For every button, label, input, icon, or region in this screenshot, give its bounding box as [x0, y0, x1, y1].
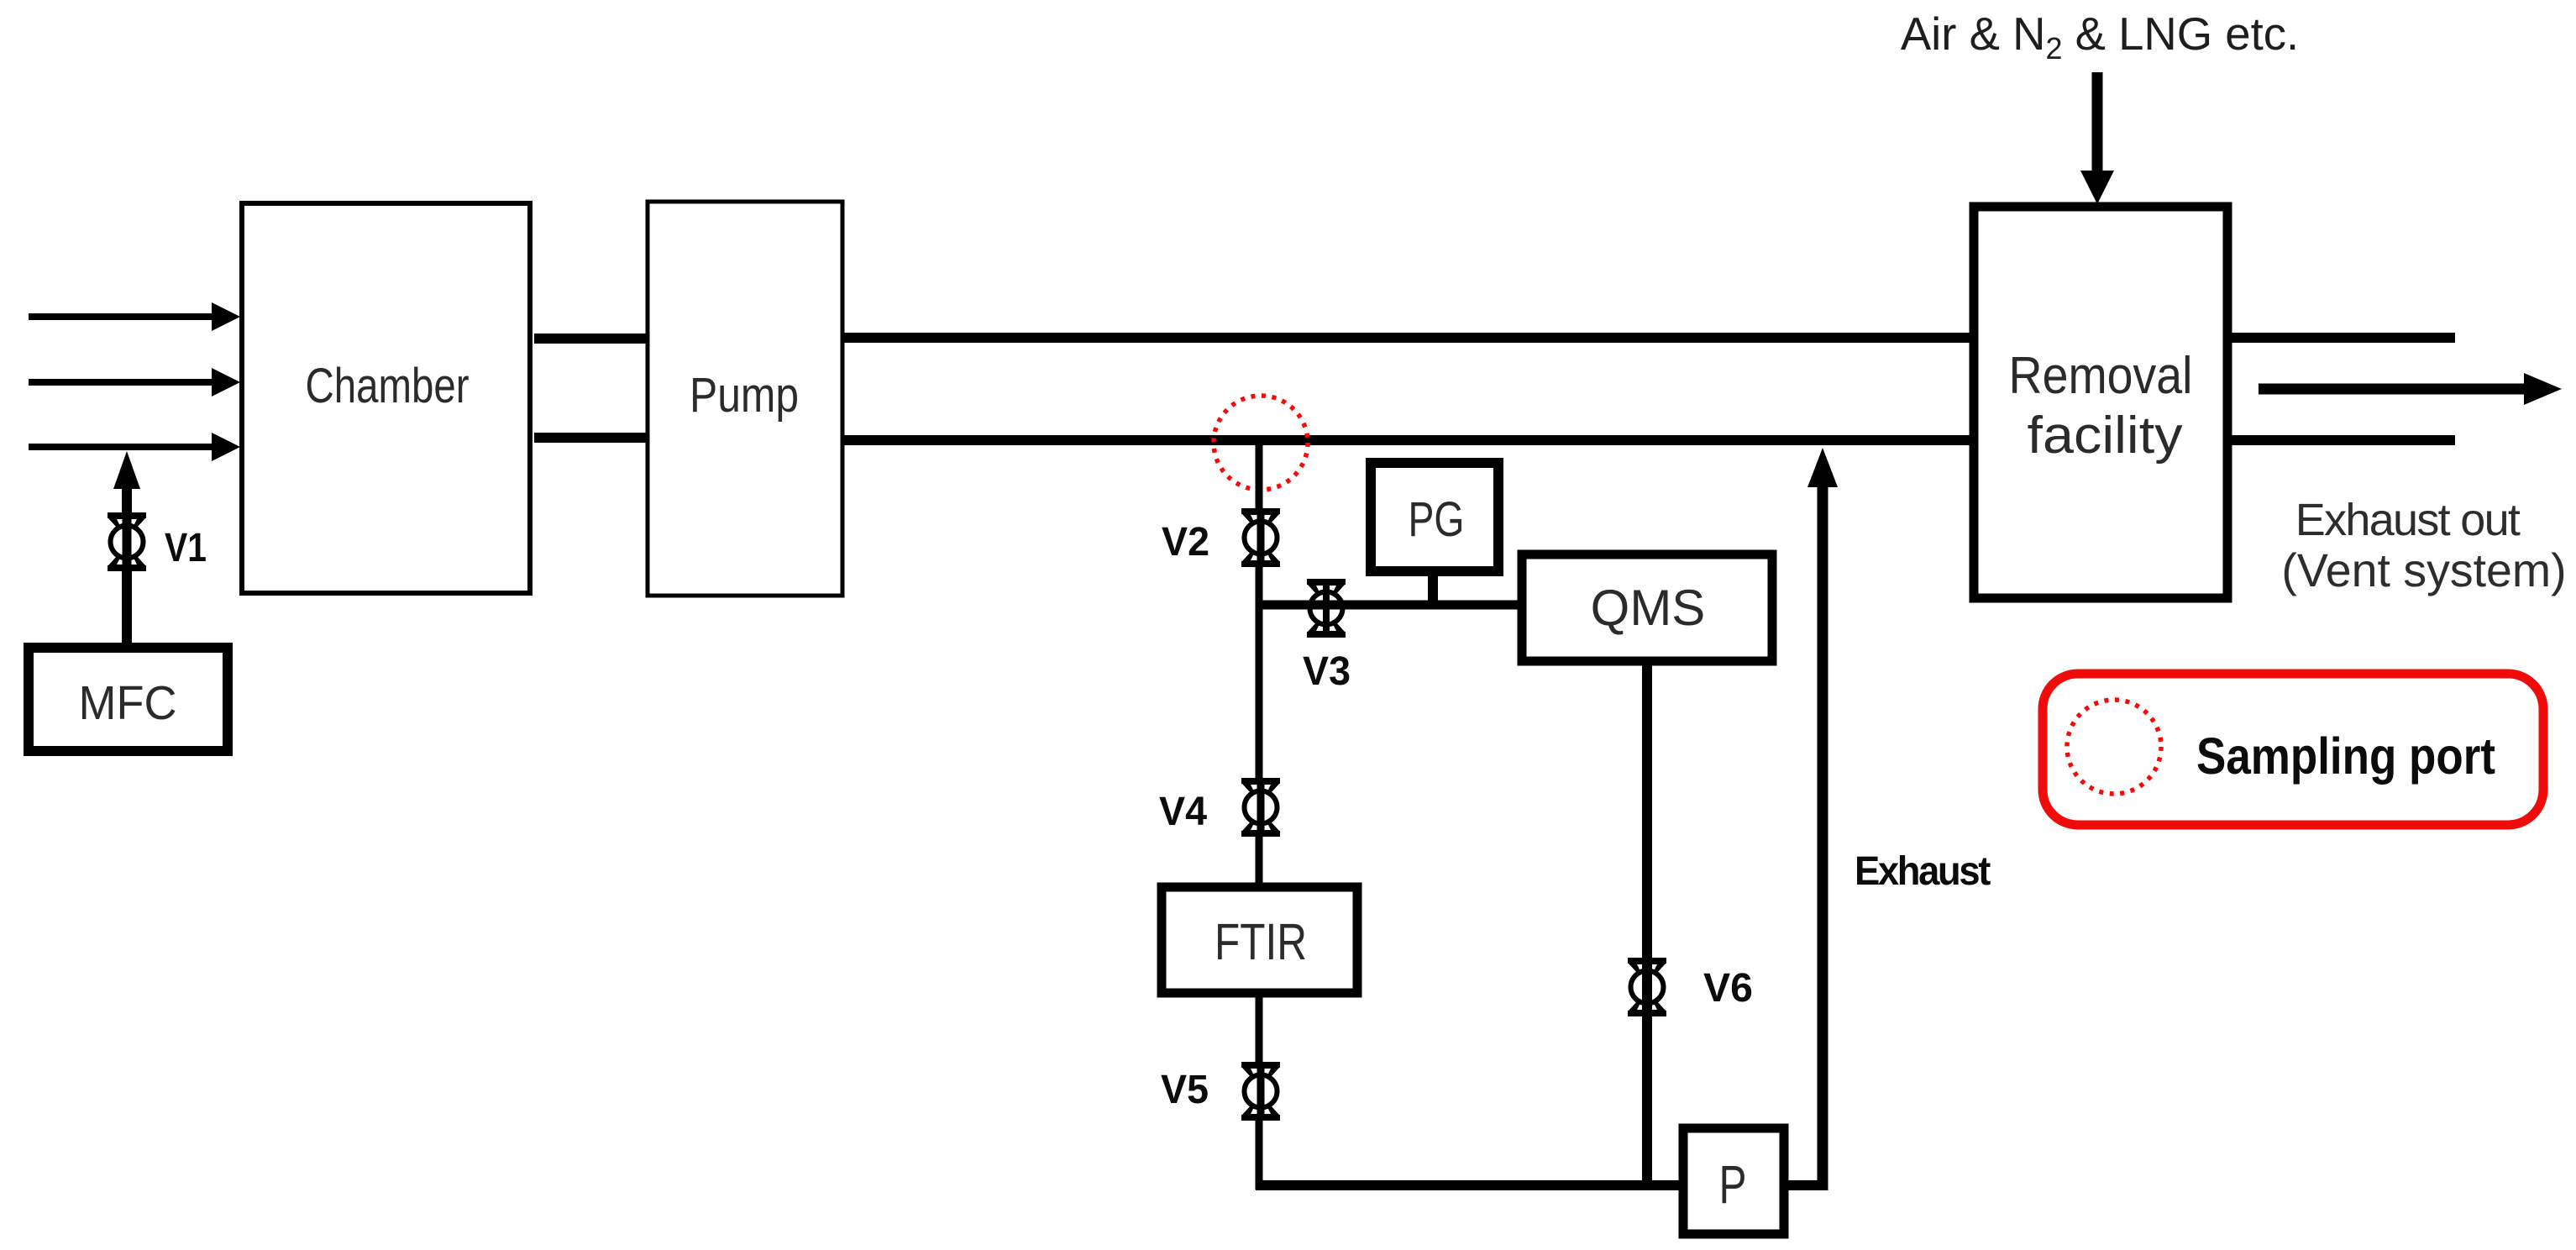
valve V3 — [1307, 579, 1346, 638]
pump P box — [1683, 1128, 1784, 1234]
wire: sampling line from bottom pipe down to FTIR — [1256, 440, 1263, 884]
svg-text:Pump: Pump — [690, 368, 799, 423]
legend sampling port dotted circle — [2067, 700, 2161, 794]
wire: removal facility bottom outlet — [2227, 435, 2455, 445]
svg-text:V6: V6 — [1703, 966, 1753, 1011]
wire: removal facility top outlet — [2227, 333, 2455, 343]
wire: branch line to PG and QMS — [1259, 601, 1522, 610]
svg-text:V3: V3 — [1303, 649, 1351, 694]
svg-text:V1: V1 — [165, 526, 207, 570]
svg-text:Removal: Removal — [2009, 347, 2193, 405]
svg-text:FTIR: FTIR — [1215, 913, 1307, 970]
svg-text:Exhaust: Exhaust — [1855, 849, 1991, 894]
wire: QMS stem down to bottom line — [1642, 663, 1652, 1185]
svg-text:Chamber: Chamber — [306, 359, 470, 413]
svg-text:PG: PG — [1409, 492, 1465, 547]
svg-text:V2: V2 — [1162, 520, 1209, 565]
wire: air feed arrow into removal facility — [2080, 72, 2114, 204]
svg-text:Sampling port: Sampling port — [2196, 727, 2495, 785]
svg-text:V5: V5 — [1161, 1068, 1209, 1112]
wire: top pipe pump to removal facility — [842, 333, 1974, 343]
sampling port red dotted circle on bottom pipe — [1214, 396, 1308, 490]
wire: bottom pipe pump to removal facility — [842, 435, 1974, 445]
valve V5 — [1241, 1062, 1280, 1121]
wire: PG stem — [1428, 575, 1438, 608]
svg-text:facility: facility — [2028, 407, 2183, 465]
valve V1 — [108, 512, 146, 571]
QMS box — [1522, 554, 1772, 661]
Pump box — [648, 202, 842, 596]
wire: chamber inlet arrow 2 — [29, 368, 240, 397]
wire: chamber to pump bottom connector — [534, 433, 647, 443]
PG box — [1371, 463, 1498, 571]
wire: MFC to inlet line arrow — [113, 451, 140, 643]
svg-text:QMS: QMS — [1591, 580, 1706, 636]
MFC box — [29, 648, 228, 751]
FTIR box — [1162, 887, 1357, 993]
svg-text:(Vent system): (Vent system) — [2281, 544, 2566, 596]
svg-text:Air & N2 & LNG etc.: Air & N2 & LNG etc. — [1901, 8, 2299, 66]
wire: vent outlet arrow — [2259, 373, 2562, 405]
wire: chamber inlet arrow 3 — [29, 433, 240, 461]
Removal facility box — [1974, 207, 2227, 598]
valve V4 — [1241, 778, 1280, 837]
wire: FTIR down to bottom return line — [1256, 996, 1263, 1190]
Chamber box — [242, 203, 530, 593]
wire: chamber inlet arrow 1 — [29, 302, 240, 331]
valve V6 — [1628, 958, 1666, 1016]
svg-text:V4: V4 — [1159, 790, 1207, 834]
wire: bottom return line to pump P — [1256, 1180, 1680, 1190]
svg-text:Exhaust out: Exhaust out — [2295, 495, 2521, 545]
wire: P to exhaust riser — [1784, 1180, 1823, 1190]
svg-text:P: P — [1719, 1154, 1747, 1215]
valve V2 — [1241, 508, 1280, 567]
wire: exhaust riser arrow up to bottom pipe — [1807, 448, 1838, 1190]
wire: chamber to pump top connector — [534, 334, 647, 344]
legend box (red rounded) — [2043, 674, 2543, 825]
svg-text:MFC: MFC — [79, 676, 177, 730]
